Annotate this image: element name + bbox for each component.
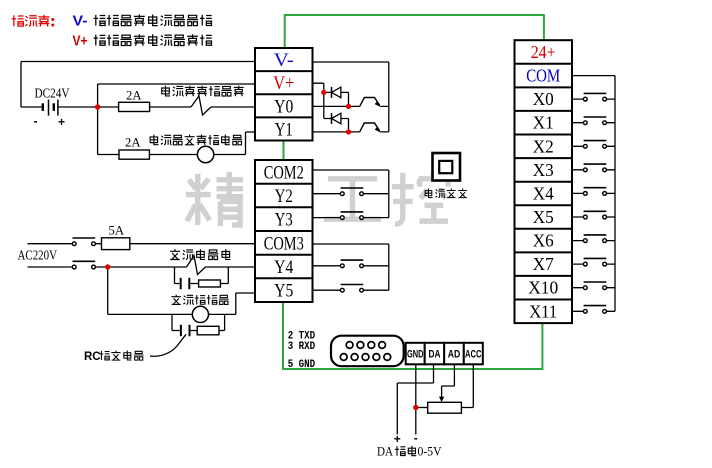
svg-text:+: + — [394, 432, 401, 446]
svg-text:X0: X0 — [533, 89, 554, 109]
svg-text:5A: 5A — [109, 223, 125, 238]
svg-text:V-: V- — [73, 13, 88, 30]
svg-text:Y4: Y4 — [274, 257, 293, 278]
svg-text:X3: X3 — [533, 160, 554, 180]
svg-text:COM: COM — [526, 66, 560, 86]
svg-text:ACC: ACC — [465, 349, 482, 361]
svg-text:-: - — [34, 114, 38, 128]
svg-text:AC220V: AC220V — [18, 248, 58, 263]
svg-text:Y3: Y3 — [275, 210, 293, 231]
svg-text:2A: 2A — [126, 88, 142, 103]
svg-text:DC24V: DC24V — [35, 87, 70, 102]
svg-text:V+: V+ — [73, 32, 88, 49]
svg-text:COM2: COM2 — [264, 162, 304, 183]
svg-text:AD: AD — [448, 349, 461, 361]
svg-text:Y0: Y0 — [274, 96, 293, 117]
svg-text:RC: RC — [84, 351, 101, 363]
svg-text:X1: X1 — [533, 113, 554, 133]
svg-text:V-: V- — [274, 50, 294, 71]
svg-text:Y5: Y5 — [274, 281, 293, 302]
svg-text:Y1: Y1 — [275, 119, 293, 140]
svg-text:V+: V+ — [273, 73, 294, 94]
svg-text:X7: X7 — [533, 254, 554, 274]
svg-text:24+: 24+ — [531, 42, 556, 62]
svg-text:+: + — [58, 115, 65, 129]
svg-text:X10: X10 — [528, 278, 558, 298]
svg-text:X5: X5 — [533, 207, 554, 227]
svg-text:COM3: COM3 — [264, 233, 304, 254]
svg-text:DA: DA — [377, 444, 394, 459]
svg-text:0-5V: 0-5V — [418, 444, 443, 459]
svg-text:3 RXD: 3 RXD — [288, 341, 316, 353]
svg-text:5 GND: 5 GND — [288, 359, 316, 371]
svg-text:X11: X11 — [529, 301, 557, 321]
svg-text:GND: GND — [407, 349, 424, 361]
svg-text:DA: DA — [429, 349, 441, 361]
svg-text:X2: X2 — [533, 136, 554, 156]
svg-text:X4: X4 — [533, 183, 554, 203]
svg-text:2A: 2A — [125, 135, 141, 150]
svg-text:X6: X6 — [533, 231, 554, 251]
svg-text:Y2: Y2 — [275, 186, 293, 207]
